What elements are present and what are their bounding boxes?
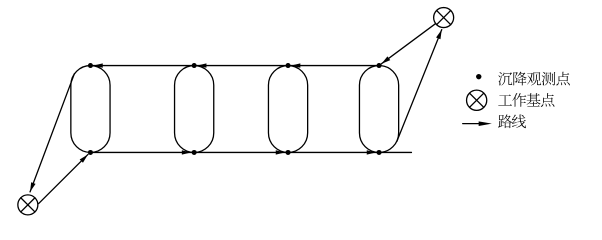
settlement observation point: loop 4 top <box>377 63 382 68</box>
arrowhead into base point BM2 <box>436 30 442 40</box>
wire: route from loop 1 top down to base point BM1 <box>30 74 74 192</box>
settlement observation point: loop 1 bottom <box>88 150 93 155</box>
settlement observation point: loop 2 bottom <box>192 150 197 155</box>
working base point BM1 (circle-cross, bottom left) <box>18 195 38 215</box>
arrowhead into base point BM1 <box>30 182 35 192</box>
wire: bottom route line (loop1 bottom, extends right past loop4) <box>90 151 411 153</box>
wire: top route line (loop1 top to loop4 top) <box>90 65 379 67</box>
arrowhead on bottom line, pointing right into loop 3 bottom dot <box>276 150 285 154</box>
arrowhead on bottom line, pointing right into loop 2 bottom dot <box>182 150 191 154</box>
settlement observation point: loop 3 bottom <box>286 150 291 155</box>
working base point BM2 (circle-cross, top right) <box>434 8 454 28</box>
arrowhead into loop 4 top dot <box>381 56 390 64</box>
arrowhead into loop 1 bottom dot <box>80 154 88 162</box>
arrowhead on top line, pointing left into loop 1 top dot <box>94 63 103 67</box>
legend text: 路线 (route) <box>498 114 526 128</box>
wire: route from base point BM2 down to loop 4 top dot <box>381 24 435 64</box>
settlement observation point: loop 2 top <box>192 63 197 68</box>
arrowhead on top line, pointing left into loop 2 top dot <box>197 63 206 67</box>
legend: observation point dot symbol <box>476 74 481 79</box>
settlement observation point: loop 1 top <box>88 63 93 68</box>
legend text: 沉降观测点 (settlement observation point) <box>498 72 570 86</box>
legend: working base point symbol <box>467 90 487 110</box>
legend: route arrow symbol <box>463 123 481 125</box>
observation loop 3 (stadium) <box>268 66 307 153</box>
observation loop 4 (stadium) <box>359 66 398 153</box>
settlement observation point: loop 3 top <box>286 63 291 68</box>
arrowhead on top line, pointing left into loop 3 top dot <box>291 63 300 67</box>
observation loop 2 (stadium) <box>175 66 214 153</box>
wire: route from loop 4 bottom up to base point BM2 <box>397 30 442 142</box>
observation loop 1 (stadium) <box>71 66 110 153</box>
wire: route from base point BM1 up to loop 1 bottom dot <box>39 154 88 203</box>
settlement observation point: loop 4 bottom <box>377 150 382 155</box>
arrowhead on bottom line, pointing right into loop 4 bottom dot <box>367 150 376 154</box>
legend text: 工作基点 (working base point) <box>498 93 554 107</box>
